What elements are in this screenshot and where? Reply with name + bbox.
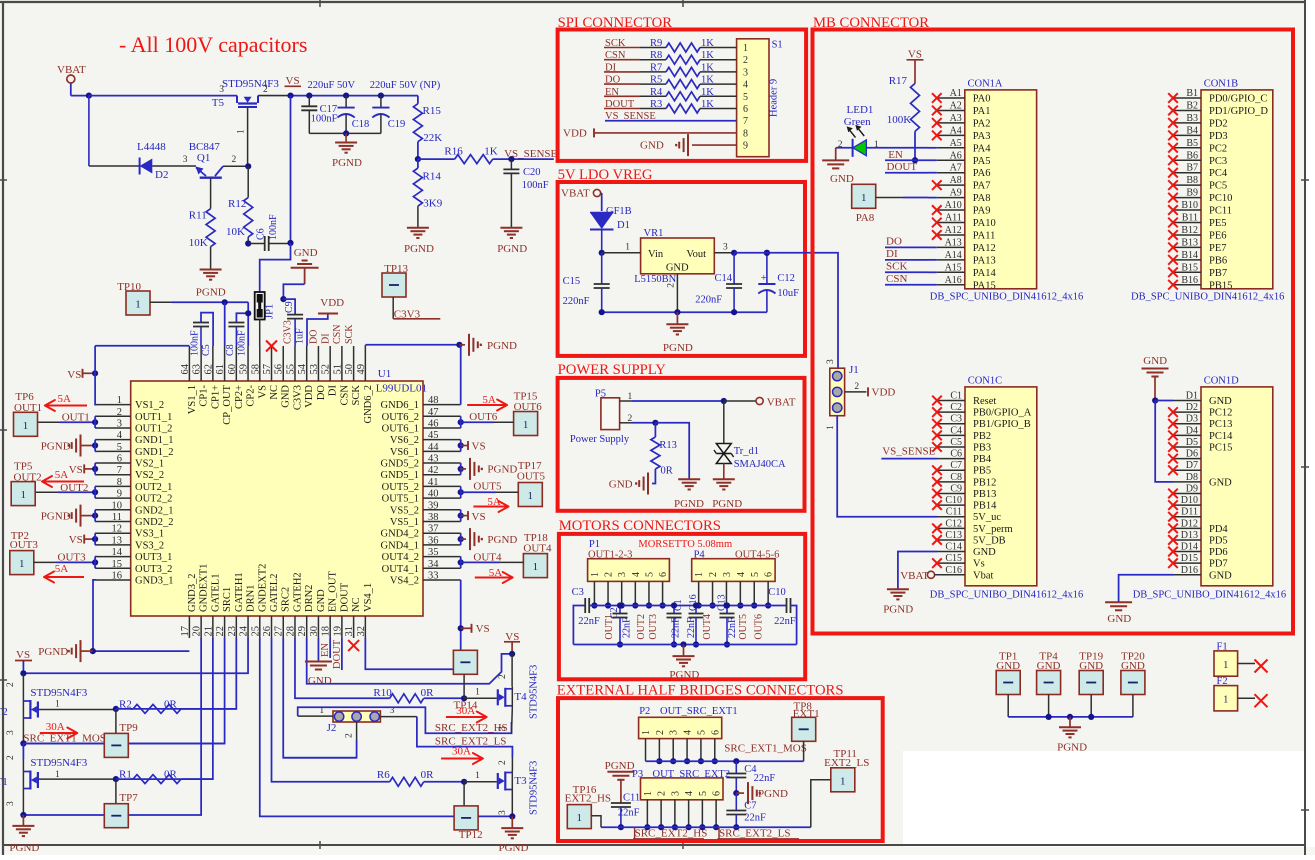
svg-text:D1: D1: [617, 220, 630, 231]
svg-text:VDD: VDD: [563, 128, 587, 140]
svg-text:6: 6: [710, 730, 721, 735]
svg-text:2: 2: [854, 382, 859, 392]
pin B12 CON1B: [1168, 225, 1226, 242]
ground PGND above P3: [605, 760, 635, 803]
svg-text:7: 7: [117, 465, 122, 476]
svg-text:B2: B2: [1186, 100, 1198, 111]
pin C12 CON1C: [932, 518, 1012, 535]
pin 24 DRN1 U1 bottom: [239, 585, 257, 638]
svg-text:1: 1: [523, 419, 529, 431]
transistor T2 STD95N4F3: [0, 673, 116, 743]
svg-text:T5: T5: [212, 97, 225, 109]
svg-text:2: 2: [604, 572, 615, 577]
svg-text:C14: C14: [945, 542, 962, 553]
svg-text:3: 3: [219, 85, 224, 95]
resistor R14 3K9: [413, 159, 442, 227]
pin 5 GND1_2 U1 left: [97, 442, 174, 458]
svg-text:22nF: 22nF: [622, 617, 633, 638]
svg-text:PE5: PE5: [1209, 218, 1227, 229]
fuse F2: [1214, 676, 1268, 711]
svg-text:9: 9: [117, 489, 122, 500]
svg-text:C3: C3: [572, 587, 584, 598]
pin 7 VS2_2 U1 left: [97, 465, 165, 481]
connector P3 OUT_SRC_EXT2: [632, 769, 730, 800]
svg-text:2: 2: [6, 682, 16, 687]
svg-text:CON1A: CON1A: [968, 78, 1003, 89]
svg-text:Reset: Reset: [973, 396, 996, 407]
wire LDO ground rail: [599, 309, 767, 315]
pin 28 GATEH2 U1 bottom: [285, 572, 303, 638]
node C4-C7 junction: [733, 790, 739, 796]
net label OUT1 rotated: [604, 614, 615, 640]
pin A10 CON1A: [932, 200, 991, 217]
pin 22 SRC1 U1 bottom: [215, 587, 233, 638]
svg-text:GND2_1: GND2_1: [135, 505, 174, 516]
svg-text:PB14: PB14: [973, 501, 997, 512]
svg-text:CP1-: CP1-: [199, 385, 210, 407]
connector P2 OUT_SRC_EXT1: [639, 706, 738, 739]
svg-text:DB_SPC_UNIBO_DIN41612_4x16: DB_SPC_UNIBO_DIN41612_4x16: [930, 590, 1083, 601]
ground PGND between C4 C7: [736, 782, 788, 804]
svg-text:1: 1: [694, 572, 705, 577]
svg-text:A1: A1: [950, 88, 962, 99]
pin 5 P4: [750, 572, 761, 609]
ground PGND LDO: [663, 312, 693, 354]
svg-text:PB4: PB4: [973, 454, 992, 465]
svg-text:48: 48: [428, 395, 439, 406]
svg-text:B14: B14: [1181, 250, 1198, 261]
svg-text:1: 1: [475, 688, 480, 698]
svg-text:220nF: 220nF: [563, 296, 590, 307]
note - All 100V capacitors: [119, 32, 307, 57]
svg-text:EXT2_HS: EXT2_HS: [565, 793, 611, 805]
svg-text:PA13: PA13: [973, 255, 996, 266]
pin 15 OUT3_2 U1 left: [97, 559, 173, 575]
svg-text:T4: T4: [514, 691, 527, 703]
net label OUT2 wire: [36, 482, 98, 498]
svg-text:A3: A3: [950, 113, 962, 124]
svg-text:VDD: VDD: [872, 387, 896, 399]
net label C3V3 under TP13: [393, 297, 440, 321]
svg-text:PB12: PB12: [973, 477, 996, 488]
resistor R9 1K on SCK: [604, 38, 748, 54]
svg-text:1: 1: [590, 572, 601, 577]
svg-text:VS4_2: VS4_2: [390, 575, 419, 586]
svg-text:4: 4: [117, 430, 123, 441]
pin A8 CON1A: [932, 175, 991, 192]
ground PGND under T1: [9, 815, 39, 854]
svg-text:41: 41: [428, 477, 439, 488]
pin 37 GND4_2 U1 right: [381, 524, 461, 540]
svg-text:5: 5: [696, 730, 707, 735]
pin A3 CON1A: [932, 113, 991, 129]
pin 23 GATEH1 U1 bottom: [227, 572, 245, 638]
arrow 30A EXT2 LS: [441, 746, 483, 765]
svg-text:OUT2: OUT2: [636, 614, 647, 640]
ground GND row9: [640, 134, 748, 156]
svg-text:22: 22: [215, 626, 226, 637]
svg-text:MORSETTO 5.08mm: MORSETTO 5.08mm: [638, 539, 732, 550]
pin C11 CON1C: [937, 507, 1001, 524]
wire J1 pin1 to C11 5V_uc: [837, 416, 937, 517]
svg-text:B12: B12: [1181, 225, 1198, 236]
pin 1 P4: [694, 572, 705, 609]
wire DI to A14: [928, 259, 937, 261]
svg-text:Vout: Vout: [686, 249, 706, 260]
svg-text:GND5_1: GND5_1: [381, 470, 420, 481]
wire VS4_1 pin32 to TP14: [365, 638, 453, 669]
ground PGND under C20: [497, 228, 527, 255]
svg-text:PA1: PA1: [973, 106, 991, 117]
svg-text:2: 2: [657, 791, 668, 796]
svg-text:TP9: TP9: [119, 722, 138, 734]
pin 46 OUT6_1 U1 right: [382, 418, 461, 434]
svg-text:3: 3: [6, 730, 16, 735]
connector J2: [319, 706, 394, 738]
ground GND pin30: [305, 638, 332, 687]
ground PGND motors: [669, 645, 699, 682]
svg-text:+: +: [761, 272, 767, 284]
svg-text:1: 1: [475, 771, 480, 781]
wire motors PGND rail: [573, 641, 796, 647]
svg-text:PD5: PD5: [1209, 535, 1228, 546]
svg-text:54: 54: [297, 363, 308, 374]
wire GATEL2 pin26 to R6: [272, 638, 390, 782]
svg-text:POWER SUPPLY: POWER SUPPLY: [558, 362, 667, 378]
pin 4 P4: [736, 572, 747, 609]
net label CSN pin51: [332, 325, 343, 344]
svg-text:PA12: PA12: [973, 243, 996, 254]
pin 5 P2: [696, 730, 707, 761]
svg-text:OUT6_2: OUT6_2: [382, 412, 419, 423]
svg-text:PB6: PB6: [1209, 255, 1227, 266]
svg-text:22nF: 22nF: [578, 616, 600, 627]
wire DOUT to A7: [928, 172, 937, 174]
svg-text:0R: 0R: [421, 687, 435, 699]
svg-text:19: 19: [332, 626, 343, 637]
svg-text:R11: R11: [189, 210, 207, 222]
port VBAT in LDO: [561, 188, 602, 212]
pin 21 GATEL1 U1 bottom: [203, 574, 221, 639]
svg-text:GND1_2: GND1_2: [135, 447, 174, 458]
svg-text:OUT4_1: OUT4_1: [382, 564, 419, 575]
svg-text:GND: GND: [1209, 477, 1232, 488]
section box POWER SUPPLY: [558, 362, 805, 511]
pin 8 OUT2_1 U1 left: [97, 477, 173, 493]
svg-text:DB_SPC_UNIBO_DIN41612_4x16: DB_SPC_UNIBO_DIN41612_4x16: [930, 292, 1083, 303]
svg-text:9: 9: [743, 141, 748, 152]
svg-text:B7: B7: [1186, 163, 1198, 174]
svg-text:Vbat: Vbat: [973, 570, 993, 581]
svg-text:CSN: CSN: [339, 385, 350, 406]
svg-text:STD95N4F3: STD95N4F3: [30, 687, 87, 699]
svg-text:1: 1: [1223, 660, 1228, 671]
pin 6 P3: [712, 791, 723, 830]
resistor R16 1K: [418, 146, 512, 164]
svg-text:DI: DI: [328, 385, 339, 397]
svg-text:37: 37: [428, 524, 439, 535]
svg-text:SCK: SCK: [344, 324, 355, 344]
svg-text:5: 5: [644, 572, 655, 577]
svg-text:CSN: CSN: [332, 325, 343, 344]
svg-text:C8: C8: [225, 344, 236, 356]
svg-text:PGND: PGND: [758, 788, 788, 800]
test point TP10: [117, 281, 150, 315]
capacitor C11 22nF: [611, 793, 640, 831]
svg-text:VDD: VDD: [304, 385, 315, 408]
resistor R11 10K: [189, 209, 215, 269]
svg-text:22K: 22K: [423, 132, 442, 144]
svg-text:DB_SPC_UNIBO_DIN41612_4x16: DB_SPC_UNIBO_DIN41612_4x16: [1131, 292, 1284, 303]
pin C1 CON1C: [932, 391, 996, 408]
pin D14 CON1D: [1168, 542, 1227, 559]
svg-text:B1: B1: [1186, 88, 1198, 99]
svg-text:1: 1: [826, 425, 836, 430]
section box EXTERNAL HALF BRIDGES CONNECTORS: [557, 683, 883, 842]
node CP_OUT junction: [222, 299, 228, 305]
svg-text:2: 2: [263, 85, 268, 95]
svg-text:47: 47: [428, 407, 439, 418]
svg-text:11: 11: [112, 512, 122, 523]
svg-text:C13: C13: [945, 530, 962, 541]
resistor R4 1K on EN: [604, 87, 748, 103]
svg-text:C1: C1: [950, 391, 962, 402]
svg-text:13: 13: [112, 535, 123, 546]
test point TP15 OUT6: [514, 391, 543, 436]
svg-text:T3: T3: [514, 775, 527, 787]
label CON1C footprint: [930, 590, 1083, 601]
pin B7 CON1B: [1168, 163, 1228, 180]
test point TP20 GND: [1121, 651, 1145, 717]
pin B14 CON1B: [1168, 250, 1227, 267]
pin 36 GND4_1 U1 right: [381, 535, 461, 551]
svg-text:40: 40: [428, 489, 439, 500]
ground PGND under R14: [404, 228, 434, 255]
port VS pins 6-7: [69, 463, 99, 476]
pin 25 GNDEXT2 U1 bottom: [250, 564, 268, 638]
svg-text:C9: C9: [284, 301, 295, 313]
svg-text:STD95N4F3: STD95N4F3: [529, 665, 540, 719]
pin D1 CON1D: [1173, 391, 1232, 408]
svg-text:12: 12: [112, 524, 123, 535]
wire C14 GND to PGND: [898, 552, 937, 589]
resistor R2 0R: [113, 699, 237, 714]
pin 39 VS5_2 U1 right: [390, 500, 461, 516]
svg-text:GND: GND: [316, 589, 327, 612]
svg-text:PE7: PE7: [1209, 243, 1227, 254]
svg-text:VS5_2: VS5_2: [390, 505, 419, 516]
svg-text:50: 50: [344, 364, 355, 375]
pin 33 VS4_2 U1 right: [390, 570, 461, 586]
svg-text:3: 3: [183, 155, 188, 165]
svg-text:6: 6: [117, 454, 122, 465]
svg-text:CON1C: CON1C: [968, 375, 1002, 386]
svg-text:EN_OUT: EN_OUT: [328, 571, 339, 612]
svg-text:GND: GND: [973, 547, 996, 558]
svg-text:1: 1: [528, 490, 534, 502]
svg-text:B11: B11: [1182, 213, 1198, 224]
net label OUT5 wire: [458, 481, 519, 499]
port VDD pin54: [307, 297, 344, 346]
svg-text:GND: GND: [1143, 355, 1167, 367]
pin 6 P2: [710, 730, 721, 761]
diode D1 GF1B: [590, 206, 632, 253]
wire pin2 to PGND: [655, 423, 689, 479]
svg-text:C3V3: C3V3: [283, 320, 294, 344]
svg-text:2: 2: [498, 760, 508, 765]
svg-text:SRC_EXT2_HS: SRC_EXT2_HS: [635, 828, 708, 840]
net label DOUT pin19: [332, 638, 343, 670]
pin 1 P1: [590, 572, 601, 609]
svg-text:VS: VS: [69, 464, 83, 476]
wire T2-T1 link: [6, 744, 24, 761]
svg-text:OUT2_1: OUT2_1: [135, 482, 172, 493]
svg-text:3: 3: [6, 801, 16, 806]
svg-text:C8: C8: [950, 472, 962, 483]
test point TP7: [104, 779, 138, 828]
transistor T3 STD95N4F3: [498, 758, 540, 816]
net label OUT6 rotated: [754, 614, 765, 640]
svg-text:D2: D2: [155, 169, 168, 181]
pin B5 CON1B: [1168, 138, 1227, 155]
pin D3 CON1D: [1168, 414, 1232, 431]
svg-text:5A: 5A: [55, 469, 68, 481]
net label SRC_EXT2_HS: [435, 722, 508, 734]
svg-text:R7: R7: [650, 62, 662, 73]
port VBAT CON1C: [900, 570, 965, 582]
pin 11 GND2_2 U1 left: [97, 512, 174, 528]
svg-text:GND: GND: [1209, 570, 1232, 581]
svg-text:PB0/GPIO_A: PB0/GPIO_A: [973, 408, 1032, 419]
resistor R8 1K on CSN: [604, 50, 748, 66]
svg-text:100nF: 100nF: [311, 114, 338, 125]
svg-text:6: 6: [712, 791, 723, 796]
wire SCK to A15: [928, 271, 937, 273]
svg-text:C7: C7: [950, 460, 962, 471]
svg-text:VBAT: VBAT: [767, 397, 796, 409]
label CON1B footprint: [1131, 292, 1284, 303]
capacitor C1 22nF: [667, 599, 685, 647]
svg-text:R9: R9: [650, 38, 662, 49]
pin B9 CON1B: [1168, 188, 1232, 205]
net label VS at T4: [504, 631, 520, 654]
svg-text:SCK: SCK: [886, 261, 907, 273]
svg-text:P1: P1: [589, 539, 600, 550]
svg-text:OUT2_2: OUT2_2: [135, 494, 172, 505]
pin C6 CON1C: [937, 449, 992, 466]
test point TP1 GND: [996, 651, 1020, 717]
wire GATEL1 pin21 to R1: [130, 638, 213, 779]
wire motors output row: [594, 605, 786, 607]
svg-text:SRC_EXT2_LS: SRC_EXT2_LS: [719, 828, 791, 840]
net label OUT1 wire: [38, 412, 98, 429]
svg-text:22nF: 22nF: [754, 773, 776, 784]
svg-text:D3: D3: [1186, 414, 1198, 425]
node P5 pin2 junction: [652, 420, 658, 426]
capacitor C15 220nF: [563, 253, 610, 312]
pin 30 GND U1 bottom: [309, 589, 327, 638]
net label VS_SENSE row7: [605, 111, 748, 127]
svg-text:D10: D10: [1181, 495, 1198, 506]
pin 54 VDD U1 top: [297, 346, 315, 408]
test point TP8 EXT1: [792, 701, 820, 762]
net label OUT3 wire: [34, 552, 99, 569]
transistor Q1 BC847: [183, 141, 248, 209]
svg-text:VBAT: VBAT: [561, 188, 590, 200]
svg-text:VDD: VDD: [320, 297, 344, 309]
port VS pin33: [458, 623, 490, 635]
svg-text:VS: VS: [472, 511, 486, 523]
svg-text:EN: EN: [320, 643, 331, 657]
svg-text:TP14: TP14: [454, 700, 478, 712]
svg-text:OUT6: OUT6: [469, 411, 498, 423]
label CON1A footprint: [930, 292, 1083, 303]
svg-text:PB2: PB2: [973, 431, 991, 442]
pin D7 CON1D: [1168, 460, 1201, 475]
svg-text:VS: VS: [908, 49, 922, 61]
svg-text:GND: GND: [640, 140, 664, 152]
svg-text:D8: D8: [1186, 472, 1198, 483]
svg-text:R4: R4: [650, 87, 663, 98]
svg-text:42: 42: [428, 465, 439, 476]
pin 59 CP2- U1 top: [239, 346, 257, 407]
arrow 5A OUT1: [45, 393, 87, 411]
pin 29 DRN2 U1 bottom: [297, 585, 315, 638]
wire PA4 LED to A5: [928, 147, 937, 149]
svg-text:TP12: TP12: [459, 829, 483, 841]
ground GND above CON1D: [1142, 355, 1169, 401]
wire CP_OUT pin61: [224, 302, 226, 346]
svg-text:DO: DO: [309, 330, 320, 344]
svg-text:55: 55: [285, 364, 296, 375]
svg-text:C2: C2: [950, 402, 962, 413]
wire DRN2 pin29 to T4 drain: [307, 638, 512, 684]
pin 34 OUT4_1 U1 right: [382, 559, 461, 575]
svg-text:D5: D5: [1186, 437, 1198, 448]
pin 49 GND6_2 U1 top: [356, 346, 374, 424]
svg-text:PA2: PA2: [973, 118, 991, 129]
wire VS drop to C6: [290, 96, 292, 243]
net label OUT2 rotated: [636, 614, 647, 640]
ground PGND pins 4-5: [41, 435, 98, 457]
connector J1: [826, 359, 859, 430]
svg-text:C11: C11: [946, 507, 962, 518]
svg-text:16: 16: [112, 570, 123, 581]
node VS_SENSE junction: [508, 156, 514, 162]
svg-text:GATEL2: GATEL2: [269, 574, 280, 613]
ground GND LED: [822, 160, 854, 185]
net label SRC_EXT2_HS ext: [633, 827, 707, 839]
svg-text:PB15: PB15: [1209, 280, 1232, 291]
svg-text:PGND: PGND: [41, 441, 71, 453]
pin 44 VS6_1 U1 right: [390, 442, 461, 458]
svg-text:CSN: CSN: [886, 273, 907, 285]
svg-text:MOTORS CONNECTORS: MOTORS CONNECTORS: [559, 518, 721, 534]
test point TP11 EXT2_LS: [811, 748, 870, 827]
wire ground test point rail: [1008, 714, 1133, 720]
svg-text:PC14: PC14: [1209, 431, 1233, 442]
pin 31 NC U1 bottom: [344, 597, 362, 638]
test point TP19 GND: [1079, 651, 1103, 717]
node VS drop junction: [287, 93, 293, 99]
svg-text:Header 9: Header 9: [769, 79, 780, 117]
pin B8 CON1B: [1168, 175, 1227, 192]
pin A12 CON1A: [932, 225, 995, 242]
pin D6 CON1D: [1168, 449, 1201, 464]
ground PGND power supply 2: [712, 479, 742, 510]
svg-text:U1: U1: [378, 368, 391, 380]
net label SRC_EXT1_MOS: [23, 733, 106, 745]
